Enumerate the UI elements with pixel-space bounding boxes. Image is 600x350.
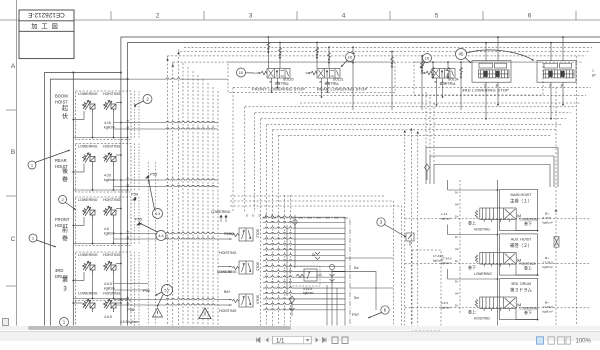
leader: [134, 101, 144, 106]
svg-text:7-: 7-: [592, 69, 595, 73]
check valve 1: [329, 264, 334, 285]
nav last page: [323, 337, 327, 342]
wire below valve: [497, 264, 499, 269]
svg-text:3RD. DRUM: 3RD. DRUM: [511, 282, 531, 286]
svg-text:HOISTING: HOISTING: [219, 251, 237, 255]
svg-text:HOISTING: HOISTING: [103, 92, 121, 96]
dashed box ext: [75, 301, 77, 326]
callout 4.3: [153, 209, 163, 219]
dashed pilot line: [405, 307, 591, 309]
wire group tap: [114, 232, 219, 233]
solenoid valve SOL20 (FRONT LOWERING STOP valve): [256, 69, 291, 81]
svg-text:B: B: [435, 80, 437, 84]
wire bus with hops: [263, 216, 345, 217]
wire: [73, 243, 127, 245]
leader: [140, 223, 158, 232]
svg-text:巻上: 巻上: [468, 308, 476, 314]
callout 4.4: [156, 231, 166, 241]
svg-text:D+: D+: [455, 303, 459, 307]
svg-text:D: D: [252, 214, 254, 218]
callout 3: [377, 218, 385, 226]
callout 10 a: [237, 68, 246, 77]
svg-text:10: 10: [239, 70, 244, 75]
marker P55: [137, 222, 140, 225]
spring mark: [421, 61, 424, 67]
svg-text:主巻（１）: 主巻（１）: [510, 197, 532, 203]
wire extension: [345, 257, 393, 259]
wire dashed loop left: [260, 119, 262, 326]
top ruler line: [0, 19, 600, 21]
junction: [120, 72, 122, 74]
arrow down: [432, 74, 434, 80]
wire: [113, 219, 115, 244]
warning triangle 2: [199, 308, 211, 319]
wire stub: [218, 299, 232, 301]
wire dashed loop top: [245, 106, 576, 108]
proportional spool valve: [475, 297, 516, 311]
wire drain P: [562, 82, 564, 105]
wire left bus B: [120, 73, 122, 326]
wire solid loop right vertical: [549, 165, 551, 188]
junction: [120, 179, 122, 181]
svg-text:前: 前: [62, 226, 68, 234]
svg-text:SOL5: SOL5: [256, 262, 260, 271]
wire dashed: [134, 300, 136, 326]
solenoid valve hoisting: [104, 153, 117, 166]
svg-text:kgf/cm²: kgf/cm²: [441, 306, 451, 310]
svg-text:HOISTING: HOISTING: [103, 145, 121, 149]
svg-text:HOISTING: HOISTING: [219, 309, 237, 313]
wire group tap: [114, 128, 219, 129]
wire bus with hops: [263, 221, 345, 222]
wire dashed loop top: [300, 95, 586, 97]
wire: [336, 288, 338, 326]
wire bus with hops: [263, 260, 345, 261]
wire dashed loop left: [277, 135, 279, 325]
pilot line dashed: [147, 162, 149, 326]
svg-text:3: 3: [63, 287, 67, 293]
wire stub: [218, 304, 232, 306]
leader: [37, 240, 57, 247]
wire solid loop left vertical: [429, 156, 431, 184]
solenoid valve lowering: [83, 153, 96, 166]
wire dashed: [138, 300, 140, 326]
title block: [19, 10, 74, 59]
wire: [113, 113, 115, 138]
wire dashed loop outer top: [233, 87, 591, 89]
svg-text:4: 4: [342, 13, 346, 20]
svg-text:kgf/cm²: kgf/cm²: [433, 259, 443, 263]
junction: [120, 299, 122, 301]
svg-text:MAIN HOIST: MAIN HOIST: [511, 193, 533, 197]
solenoid valve SOL2: [232, 228, 253, 241]
svg-text:補巻（２）: 補巻（２）: [510, 242, 532, 249]
wire feed: [328, 47, 330, 68]
arrow down: [279, 54, 281, 60]
svg-text:P56: P56: [143, 288, 151, 293]
manifold block block 2: [537, 61, 576, 82]
svg-text:10: 10: [425, 55, 430, 60]
flow chevrons: [315, 252, 320, 260]
wire vertical collector: [344, 217, 346, 326]
wire group tap: [114, 238, 219, 239]
svg-text:P57: P57: [352, 312, 360, 317]
wire: [92, 113, 94, 138]
wire dashed loop top: [278, 134, 552, 136]
wire: [113, 166, 115, 191]
svg-text:後巻下防止: 後巻下防止: [325, 80, 340, 85]
callout 1c: [60, 318, 69, 327]
svg-text:A4: A4: [455, 202, 459, 206]
junction: [120, 233, 122, 235]
junction: [127, 304, 129, 306]
junction: [120, 122, 122, 124]
leader: [157, 294, 164, 307]
wire dashed vertical: [192, 71, 194, 326]
svg-text:HOIST: HOIST: [55, 100, 68, 105]
wire dashed: [138, 91, 140, 139]
svg-text:8Y: 8Y: [592, 74, 597, 78]
valve group REAR HOIST: [76, 144, 132, 193]
svg-text:Dr: Dr: [455, 235, 458, 239]
wire feed: [316, 43, 318, 69]
svg-text:B+: B+: [545, 300, 549, 304]
wire: [116, 263, 121, 265]
solenoid valve SOL4: [232, 294, 253, 307]
svg-text:kgf/cm²: kgf/cm²: [543, 265, 553, 269]
svg-text:Ar: Ar: [127, 230, 130, 234]
nav prev page: [266, 337, 269, 342]
wire dashed horizontal: [168, 55, 587, 57]
svg-text:HOISTING: HOISTING: [103, 198, 121, 202]
wire: [73, 225, 84, 227]
wire feed2 extension with hops: [128, 78, 228, 79]
wire dashed loop right: [576, 56, 578, 326]
spring mark: [352, 52, 355, 58]
arrow down: [447, 74, 449, 80]
dashed pilot line: [405, 262, 591, 264]
wire: [116, 208, 121, 210]
wire solid loop left vertical: [425, 148, 427, 185]
wire stop valve drain: [271, 81, 273, 93]
wire bus with hops: [263, 243, 345, 244]
wire dashed vertical: [202, 79, 204, 326]
wire riser center: [497, 269, 499, 297]
wire: [332, 270, 376, 272]
junction: [127, 186, 129, 188]
wire bus with hops: [263, 265, 345, 266]
arrow down: [391, 63, 393, 69]
svg-text:kgf/cm²: kgf/cm²: [441, 217, 451, 221]
svg-text:4-6.5: 4-6.5: [441, 301, 448, 305]
wire dashed vertical center: [284, 195, 286, 326]
svg-text:主巻下防止: 主巻下防止: [275, 80, 290, 85]
svg-text:10: 10: [348, 54, 353, 59]
wire dashed bottom corner: [230, 201, 394, 326]
wire: [116, 154, 121, 156]
left ruler line: [16, 0, 18, 326]
wire tap G4 upper: [114, 283, 149, 285]
solenoid valve G4 row2 left: [83, 299, 96, 312]
arrow down: [316, 54, 318, 60]
wire dashed vertical riser: [425, 92, 427, 148]
wire dashed loop left: [272, 130, 274, 326]
wire stop valve drain: [321, 81, 323, 98]
page input box: [273, 336, 312, 344]
svg-text:17-34.5: 17-34.5: [543, 260, 554, 264]
marker P54: [133, 197, 136, 200]
wire feed T: [550, 43, 552, 61]
ruler tick: [389, 11, 391, 20]
wire feed: [267, 37, 269, 68]
wire bus with hops: [263, 238, 345, 239]
nav first page: [257, 337, 261, 342]
svg-text:HOISTING: HOISTING: [103, 292, 121, 296]
valve group FRONT HOIST: [76, 197, 132, 246]
dashed sense line: [459, 269, 461, 313]
svg-text:HOISTING: HOISTING: [474, 316, 490, 320]
wire: [286, 225, 288, 296]
svg-text:Dw: Dw: [354, 266, 359, 270]
solenoid valve hoisting: [104, 206, 117, 219]
svg-text:5: 5: [435, 13, 439, 20]
left ruler tick: [6, 285, 17, 287]
wire stub: [218, 238, 232, 240]
wire riser center: [497, 180, 499, 208]
svg-text:P54: P54: [131, 192, 139, 197]
svg-text:1-14: 1-14: [441, 212, 447, 216]
wire dashed horizontal: [180, 51, 589, 53]
svg-text:CE126212-E: CE126212-E: [28, 11, 65, 18]
gauge port symbol: [293, 220, 297, 224]
wire feed: [391, 52, 393, 111]
ruler tick: [296, 11, 298, 20]
svg-text:Dr: Dr: [455, 190, 458, 194]
svg-text:T: T: [549, 83, 552, 88]
solenoid valve SOL5: [232, 261, 253, 274]
wire feed: [279, 43, 281, 69]
svg-text:5.7: 5.7: [164, 288, 169, 292]
wire group tap: [114, 121, 219, 122]
svg-text:伏: 伏: [62, 113, 68, 121]
wire drain T: [550, 82, 552, 119]
ruler tick: [575, 11, 577, 20]
ruler tick: [482, 11, 484, 20]
junction: [127, 128, 129, 130]
wire riser left: [447, 180, 449, 190]
junction: [127, 238, 129, 240]
svg-text:巻下: 巻下: [468, 264, 476, 270]
wire dashed vertical: [217, 91, 219, 326]
wire top feed 2: [50, 43, 600, 326]
wire dashed vertical: [187, 67, 189, 326]
wire: [294, 215, 296, 268]
solenoid valve SOL21 (REAR LOWERING STOP valve): [306, 69, 341, 81]
callout 45: [456, 49, 467, 60]
wire dashed: [134, 197, 136, 245]
leader: [155, 292, 162, 296]
leader long: [467, 50, 535, 61]
svg-text:Dr: Dr: [312, 253, 316, 257]
wire: [73, 171, 84, 173]
dashed pilot line: [405, 218, 591, 220]
wire drain T: [485, 82, 487, 119]
svg-text:LOWERING: LOWERING: [78, 198, 98, 202]
wire riser center: [497, 225, 499, 253]
wire: [73, 298, 127, 300]
svg-text:4-6.5: 4-6.5: [104, 315, 112, 319]
wire dashed loop top: [267, 124, 561, 126]
wire bus with hops: [263, 276, 345, 277]
wire group tap: [114, 179, 219, 180]
svg-text:45: 45: [459, 52, 464, 57]
wire: [116, 102, 121, 104]
svg-text:Ar: Ar: [127, 119, 130, 123]
callout 10 b: [346, 53, 355, 62]
svg-text:17-34.5: 17-34.5: [433, 254, 444, 258]
wire feed P: [497, 37, 499, 61]
svg-text:6: 6: [528, 13, 532, 20]
wire group tap: [114, 185, 219, 186]
solenoid valve G4 row2 right: [104, 299, 117, 312]
wire extension: [350, 287, 393, 289]
svg-text:Dr: Dr: [455, 279, 458, 283]
svg-text:4-15: 4-15: [104, 121, 111, 125]
wire solid loop top: [430, 155, 554, 157]
wire dashed loop top: [261, 118, 566, 120]
proportional spool valve: [475, 253, 516, 267]
svg-text:巻下: 巻下: [524, 309, 532, 315]
wire dashed: [138, 197, 140, 245]
svg-text:第３ドラム: 第３ドラム: [510, 286, 532, 293]
wire: [73, 119, 84, 121]
left ruler tick: [6, 109, 17, 111]
wire feed: [352, 47, 354, 110]
wire feed P: [562, 37, 564, 61]
wire dashed loop right: [555, 88, 557, 326]
arrow down: [460, 74, 462, 80]
check valve on right bus: [554, 237, 559, 248]
wire dashed vertical: [182, 63, 184, 326]
wire stub: [218, 266, 232, 268]
svg-text:A4: A4: [455, 247, 459, 251]
svg-text:第3巻下防止: 第3巻下防止: [440, 80, 456, 85]
svg-text:4-6: 4-6: [104, 227, 109, 231]
wire left bus A: [72, 73, 74, 326]
wire bus with hops: [263, 309, 345, 310]
ruler tick: [110, 11, 112, 20]
leader: [35, 150, 70, 163]
group frame wires: [500, 189, 538, 230]
wire dashed: [134, 252, 136, 300]
wire dashed loop outer left: [232, 88, 234, 213]
wire: [375, 271, 377, 310]
svg-text:kgf/cm²: kgf/cm²: [543, 220, 553, 224]
riser arrowheads: [166, 58, 169, 61]
wire stop valve drain: [436, 81, 438, 106]
wire dashed loop top: [300, 102, 581, 104]
group frame wires: [500, 234, 538, 275]
svg-text:D+: D+: [455, 214, 459, 218]
wire dashed loop left: [266, 125, 268, 326]
svg-text:3RD LOWERING STOP: 3RD LOWERING STOP: [462, 88, 509, 93]
wire group tap: [114, 304, 219, 305]
wire feed: [460, 62, 462, 110]
svg-text:B+: B+: [545, 256, 549, 260]
svg-text:4.4: 4.4: [158, 234, 163, 238]
riser arrowheads: [404, 130, 407, 133]
svg-text:D: D: [246, 214, 248, 218]
wire dashed loop left: [244, 107, 246, 212]
svg-text:B: B: [11, 149, 15, 156]
svg-text:起: 起: [62, 104, 68, 112]
wire bus with hops: [263, 227, 345, 228]
wire dashed vertical: [178, 49, 180, 325]
wire stub: [218, 233, 232, 235]
svg-text:kgf/cm²: kgf/cm²: [543, 309, 553, 313]
wire dashed: [134, 91, 136, 139]
svg-text:LOWERING: LOWERING: [474, 272, 492, 276]
spring mark: [447, 67, 450, 73]
arrow down: [328, 59, 330, 65]
solenoid valve SOL34 (3RD LOWERING STOP valve): [421, 69, 456, 81]
callout 1a: [28, 161, 36, 169]
svg-text:Dm: Dm: [354, 296, 359, 300]
wire solid loop right vertical: [557, 148, 559, 188]
callout 5.7: [162, 285, 173, 296]
svg-text:第: 第: [62, 276, 68, 284]
wire to corner: [516, 264, 538, 275]
wire: [116, 302, 121, 304]
callout 2b: [59, 195, 67, 203]
spring mark: [328, 52, 331, 58]
wire bus with hops: [263, 281, 345, 282]
wire below valve: [497, 309, 499, 314]
spring mark: [316, 48, 319, 54]
wire top feed 1: [45, 37, 600, 326]
svg-text:4-6.5: 4-6.5: [104, 282, 112, 286]
leader: [368, 313, 382, 319]
wire: [83, 217, 85, 226]
wire: [113, 274, 115, 299]
wire dashed horizontal: [184, 46, 592, 48]
svg-text:2: 2: [156, 13, 160, 20]
wire solid loop left vertical: [433, 165, 435, 185]
svg-text:C: C: [11, 236, 16, 243]
wire: [92, 219, 94, 244]
wire stop valve drain: [327, 81, 329, 93]
callout 10 c: [423, 54, 432, 63]
svg-text:Ar: Ar: [127, 176, 130, 180]
solenoid valve hoisting: [104, 100, 117, 113]
dashed sense line: [459, 180, 461, 224]
svg-text:D: D: [259, 214, 261, 218]
wire dashed vertical: [404, 130, 406, 326]
wire: [92, 274, 94, 299]
wire dashed bottom: [230, 195, 385, 197]
wire: [326, 285, 328, 326]
wire solid loop top: [434, 164, 550, 166]
ruler tick: [203, 11, 205, 20]
view icon 4: [566, 336, 571, 343]
pilot line dashed: [154, 162, 156, 326]
svg-text:4-6.5 kgf/cm²: 4-6.5 kgf/cm²: [120, 320, 140, 324]
svg-text:LOWERING: LOWERING: [78, 292, 98, 296]
dashed sense line: [459, 225, 461, 269]
wire stop valve drain: [277, 81, 279, 88]
junction: [127, 78, 129, 80]
leader: [149, 180, 155, 210]
